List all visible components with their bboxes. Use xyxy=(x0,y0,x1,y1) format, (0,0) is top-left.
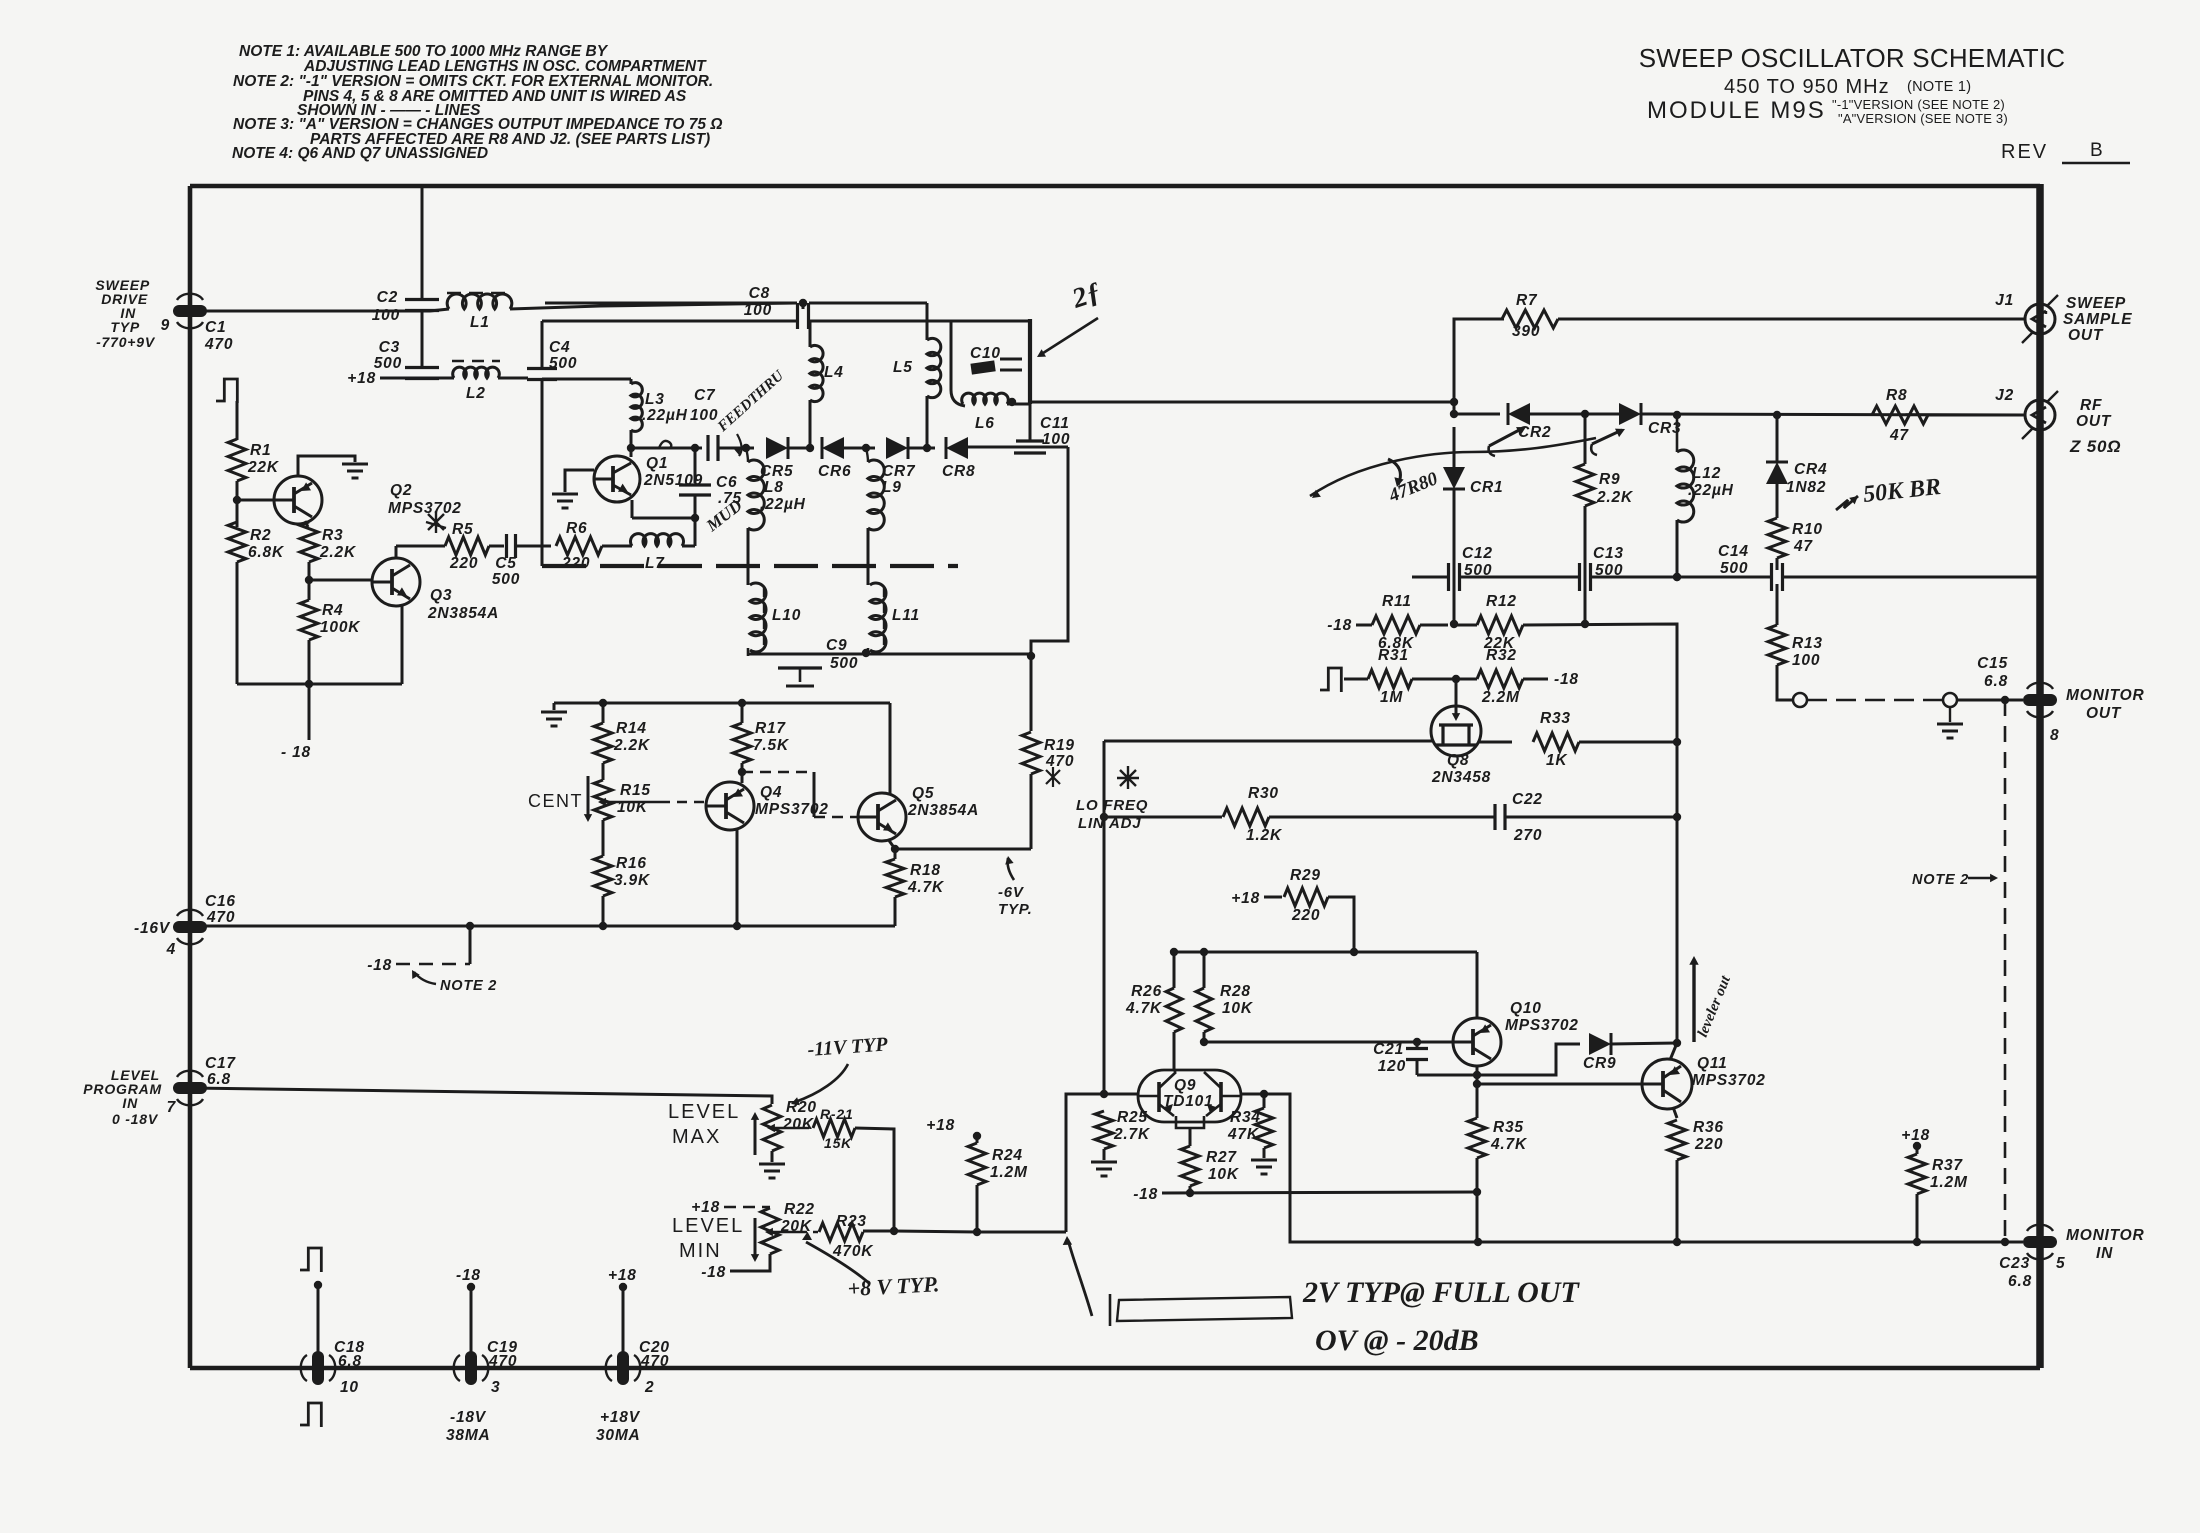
core dashes L10 xyxy=(763,588,765,648)
cent adjust arrow xyxy=(587,776,590,816)
svg-text:- 18: - 18 xyxy=(281,744,311,761)
dashed -18 wire at note2 xyxy=(396,963,470,966)
feedthrough capacitor C20 xyxy=(617,1351,629,1385)
wire L3 to Q1 base node xyxy=(630,430,633,452)
transistor Q4 xyxy=(706,782,754,830)
wire C11 corner down to C9 row xyxy=(1031,447,1068,656)
svg-text:OUT: OUT xyxy=(2086,705,2122,722)
svg-text:R26: R26 xyxy=(1131,983,1162,1000)
border right (thick) xyxy=(2036,184,2044,1368)
svg-text:L1: L1 xyxy=(470,314,490,331)
inductor L3 xyxy=(631,383,642,432)
connector circle A monitor out xyxy=(1793,693,1807,707)
wire note2 stub xyxy=(469,926,472,964)
svg-text:-18: -18 xyxy=(701,1264,726,1281)
svg-text:C9: C9 xyxy=(826,637,847,654)
wire C6 vertical xyxy=(694,448,697,483)
wire R1 to node Q2 base xyxy=(236,481,239,527)
svg-text:R-21: R-21 xyxy=(820,1106,854,1122)
wire R4 to bottom rail xyxy=(308,640,311,684)
wire R26 leads xyxy=(1173,952,1176,988)
svg-text:MPS3702: MPS3702 xyxy=(755,801,829,818)
svg-text:Q3: Q3 xyxy=(430,587,452,604)
wire R28 leads xyxy=(1203,952,1206,988)
svg-text:R19: R19 xyxy=(1044,737,1075,754)
svg-text:C22: C22 xyxy=(1512,791,1543,808)
svg-text:6.8K: 6.8K xyxy=(248,544,285,561)
fet Q8 xyxy=(1431,706,1481,756)
svg-text:MODULE M9S: MODULE M9S xyxy=(1647,97,1826,124)
svg-text:C4: C4 xyxy=(549,339,570,356)
capacitor C21 xyxy=(1406,1047,1428,1050)
svg-text:470: 470 xyxy=(1045,753,1074,770)
svg-text:L12: L12 xyxy=(1692,465,1721,482)
diode CR3 xyxy=(1619,403,1641,425)
wire +18 to R22 xyxy=(724,1206,770,1208)
wire +18 to R29 xyxy=(1264,896,1282,899)
wire R30 to C22 xyxy=(1269,816,1494,819)
svg-text:3.9K: 3.9K xyxy=(614,872,651,889)
wire R37 to monitor row xyxy=(1916,1194,1919,1242)
inductor L9 xyxy=(868,460,884,530)
svg-text:Q1: Q1 xyxy=(646,455,668,472)
wire Q10 base row xyxy=(1204,1041,1452,1044)
resistor R29 xyxy=(1284,888,1328,906)
wire R2 to bottom rail xyxy=(236,562,239,684)
svg-text:2.2K: 2.2K xyxy=(319,544,357,561)
wire Q8 drain to R33 xyxy=(1479,741,1512,744)
wire pulse to R1 xyxy=(236,401,239,440)
wire R14/R17 top rail xyxy=(553,703,556,710)
resistor R6 xyxy=(556,537,602,555)
wire Q9 emitters to R27 xyxy=(1176,1122,1204,1128)
svg-text:0 -18V: 0 -18V xyxy=(112,1111,159,1127)
inductor L4 xyxy=(810,345,823,401)
svg-text:+18: +18 xyxy=(347,370,376,387)
wire Q9 right lead to node xyxy=(1241,1093,1276,1096)
transistor Q5 xyxy=(858,793,906,841)
pulse above C18 xyxy=(300,1248,321,1272)
wire Q11 base row xyxy=(1477,1083,1642,1086)
wire Q4 emitter down xyxy=(736,829,739,926)
hop mark on base wire xyxy=(659,441,671,448)
wire L6 to node xyxy=(1007,403,1030,406)
svg-text:+18: +18 xyxy=(926,1117,955,1134)
feedthrough capacitor C18 xyxy=(312,1351,324,1385)
svg-text:R12: R12 xyxy=(1486,593,1517,610)
svg-text:R3: R3 xyxy=(322,527,343,544)
svg-text:2.2M: 2.2M xyxy=(1481,689,1520,706)
resistor R17 xyxy=(733,723,751,763)
wire monitor in row right xyxy=(1478,1241,2023,1244)
svg-text:9: 9 xyxy=(161,317,170,334)
wire Q8 gate xyxy=(1455,679,1458,716)
wire R15 wiper to Q4 base xyxy=(660,801,706,803)
potentiometer R20 xyxy=(763,1105,781,1151)
handwritten leveler out arrow xyxy=(1692,962,1695,1042)
ground at R14 rail xyxy=(541,711,567,714)
wire node to CR3 xyxy=(1585,413,1619,416)
inductor L10 xyxy=(750,583,766,652)
handwritten swoosh CR2-CR3 xyxy=(1310,438,1596,496)
resistor R19 xyxy=(1022,732,1040,774)
wire C10 thick vertical xyxy=(1028,319,1032,404)
level max arrow xyxy=(754,1117,757,1155)
wire circle B to C15 xyxy=(1957,699,2023,702)
svg-text:MPS3702: MPS3702 xyxy=(1505,1017,1579,1034)
arrow from 2f to C10 xyxy=(1040,318,1098,355)
svg-text:100: 100 xyxy=(1042,431,1070,448)
compartment top edge xyxy=(542,320,797,323)
svg-text:Q11: Q11 xyxy=(1697,1055,1728,1072)
wire -18 rail xyxy=(1162,1192,1477,1193)
capacitor C7 (series in base row) xyxy=(706,435,709,461)
svg-text:R16: R16 xyxy=(616,855,647,872)
svg-text:+18: +18 xyxy=(1231,890,1260,907)
svg-text:47K: 47K xyxy=(1227,1126,1260,1143)
wire CR4 top lead xyxy=(1776,415,1779,462)
wire R12 to corner xyxy=(1523,624,1677,1043)
svg-text:R30: R30 xyxy=(1248,785,1279,802)
svg-text:R36: R36 xyxy=(1693,1119,1724,1136)
connector circle B monitor out xyxy=(1943,693,1957,707)
capacitor C5 xyxy=(505,534,508,558)
wire CR9 corner xyxy=(1477,1044,1580,1075)
wire L5 chain xyxy=(926,303,929,340)
feedthrough capacitor C17 xyxy=(173,1082,207,1094)
diode CR5 xyxy=(766,437,788,459)
wire R5 to C5 xyxy=(396,545,445,548)
svg-text:SWEEP OSCILLATOR SCHEMATIC: SWEEP OSCILLATOR SCHEMATIC xyxy=(1639,43,2066,73)
svg-text:NOTE 2: NOTE 2 xyxy=(440,978,497,994)
ground at R20 xyxy=(759,1163,785,1166)
wire R32 to -18 xyxy=(1523,678,1548,681)
feedthrough capacitor C19 xyxy=(465,1351,477,1385)
svg-text:270: 270 xyxy=(1513,827,1542,844)
wire CR2 to node R9 xyxy=(1530,413,1585,416)
svg-text:-18: -18 xyxy=(1327,617,1352,634)
svg-text:CENT: CENT xyxy=(528,791,583,811)
svg-text:L10: L10 xyxy=(772,607,801,624)
node at C8 top xyxy=(799,299,807,307)
svg-text:7: 7 xyxy=(167,1099,177,1116)
wire pulse to R31 xyxy=(1344,678,1368,681)
svg-text:CR6: CR6 xyxy=(818,463,851,480)
wire R36 to monitor row xyxy=(1676,1160,1679,1242)
wire Q5 emitter row to R19 xyxy=(895,848,1031,851)
core dashes L11 xyxy=(883,588,885,648)
svg-text:J1: J1 xyxy=(1995,292,2014,309)
svg-text:R13: R13 xyxy=(1792,635,1823,652)
wire L5 bottom to diode row xyxy=(926,396,929,448)
svg-text:220: 220 xyxy=(561,555,590,572)
svg-text:TYP: TYP xyxy=(110,319,140,335)
wire Q11 emitter to R36 xyxy=(1673,1107,1677,1118)
svg-text:L6: L6 xyxy=(975,415,995,432)
handwritten arrow at CR3 xyxy=(1592,430,1622,444)
svg-text:L11: L11 xyxy=(892,607,920,624)
core dashes L2 xyxy=(452,360,500,362)
wire R14 to R15 xyxy=(602,703,605,723)
wire L7 to C6 node xyxy=(682,545,695,548)
compartment left edge upper xyxy=(541,321,544,367)
svg-text:390: 390 xyxy=(1512,323,1540,340)
wire R24 to node xyxy=(976,1185,979,1232)
resistor R13 xyxy=(1768,625,1786,665)
svg-text:C12: C12 xyxy=(1462,545,1493,562)
wire Q3 collector up xyxy=(395,546,398,559)
feedthrough capacitor C16 xyxy=(173,921,207,933)
resistor R12 xyxy=(1477,616,1523,634)
wire -18 to C19 xyxy=(470,1286,473,1360)
svg-text:2N3854A: 2N3854A xyxy=(907,802,979,819)
svg-text:4.7K: 4.7K xyxy=(1125,1000,1163,1017)
svg-text:C1: C1 xyxy=(205,319,226,336)
svg-text:-770+9V: -770+9V xyxy=(96,334,156,350)
capacitor C8 xyxy=(796,303,799,329)
svg-text:R15: R15 xyxy=(620,782,651,799)
svg-text:TYP.: TYP. xyxy=(998,901,1033,918)
svg-text:NOTE 2: NOTE 2 xyxy=(1912,872,1969,888)
svg-text:MIN: MIN xyxy=(679,1240,722,1262)
svg-text:C6: C6 xyxy=(716,474,737,491)
transistor Q11 xyxy=(1642,1059,1692,1109)
svg-text:38MA: 38MA xyxy=(446,1427,491,1444)
capacitor C22 xyxy=(1493,804,1496,830)
wire Q1 emitter row xyxy=(631,500,634,518)
svg-text:2V TYP@ FULL OUT: 2V TYP@ FULL OUT xyxy=(1302,1276,1580,1309)
wire R23 to node row xyxy=(863,1230,894,1233)
svg-text:4.7K: 4.7K xyxy=(907,879,945,896)
wire sweep drive row C1 to C8 xyxy=(190,309,449,311)
svg-text:1.2M: 1.2M xyxy=(1930,1174,1968,1191)
svg-text:2: 2 xyxy=(644,1379,654,1396)
wire base node to C6 node xyxy=(631,447,702,450)
wire main row C10 to R7 node xyxy=(1030,401,1454,404)
svg-text:220: 220 xyxy=(1694,1136,1723,1153)
capacitor C12 xyxy=(1447,563,1450,591)
dashed link Q4 collector to Q5 base xyxy=(742,771,814,774)
wire Q1 left lead to ground xyxy=(565,470,594,492)
wire R31 to node xyxy=(1412,678,1477,681)
svg-text:R27: R27 xyxy=(1206,1149,1237,1166)
svg-text:R32: R32 xyxy=(1486,647,1517,664)
svg-text:CR1: CR1 xyxy=(1470,479,1503,496)
resistor R37 xyxy=(1908,1154,1926,1194)
svg-text:R10: R10 xyxy=(1792,521,1823,538)
ground at monitor out circle xyxy=(1949,707,1951,722)
wire Q11 collector lead xyxy=(1670,1043,1677,1060)
svg-text:R33: R33 xyxy=(1540,710,1571,727)
svg-text:15K: 15K xyxy=(824,1135,852,1151)
wire C9 row xyxy=(748,653,1031,656)
svg-text:C23: C23 xyxy=(1999,1255,2030,1272)
feedthrough capacitor C1 xyxy=(173,305,207,317)
wire R19 to Q5 emitter row xyxy=(1030,774,1033,849)
svg-text:+18: +18 xyxy=(691,1199,720,1216)
resistor R30 xyxy=(1223,808,1269,826)
wire R8 to J2 xyxy=(1928,414,2025,417)
resistor R8 xyxy=(1872,406,1928,424)
svg-text:-6V: -6V xyxy=(998,884,1025,901)
wire R27 to -18 rail xyxy=(1189,1186,1192,1193)
diode CR1 (varactor) xyxy=(1443,467,1465,489)
svg-text:R6: R6 xyxy=(566,520,587,537)
compartment dashed bottom (-1 version line) xyxy=(542,564,958,568)
svg-text:CR7: CR7 xyxy=(882,463,916,480)
wire +18 to R37 xyxy=(1916,1144,1919,1154)
dashed vertical note2 line xyxy=(2004,700,2007,1242)
svg-text:LEVEL: LEVEL xyxy=(668,1101,740,1123)
svg-text:R9: R9 xyxy=(1599,471,1620,488)
wire CR9 to Q11 collector xyxy=(1611,1043,1677,1044)
svg-text:R5: R5 xyxy=(452,521,473,538)
svg-text:-16V: -16V xyxy=(134,920,171,937)
svg-text:C8: C8 xyxy=(749,285,770,302)
diode CR8 xyxy=(946,437,968,459)
svg-text:Q4: Q4 xyxy=(760,784,782,801)
wire C12 to C13 xyxy=(1460,576,1579,579)
border bottom xyxy=(190,1366,2040,1371)
svg-text:220: 220 xyxy=(1291,907,1320,924)
wire C7 to CR5 xyxy=(718,447,754,450)
resistor R5 xyxy=(445,537,489,555)
resistor R31 xyxy=(1368,670,1412,688)
svg-text:47: 47 xyxy=(1889,427,1909,444)
svg-text:+18V: +18V xyxy=(600,1409,641,1426)
svg-text:MAX: MAX xyxy=(672,1126,721,1148)
wire level program row xyxy=(190,1088,772,1104)
potentiometer R15 xyxy=(594,780,612,820)
svg-text:C15: C15 xyxy=(1977,655,2008,672)
svg-text:L2: L2 xyxy=(466,385,486,402)
svg-text:L8: L8 xyxy=(764,479,784,496)
inductor L8 xyxy=(748,460,764,530)
svg-text:.22µH: .22µH xyxy=(642,407,688,424)
wire top inner rail to L5 xyxy=(545,302,797,305)
compartment left edge lower xyxy=(541,380,544,566)
svg-text:100: 100 xyxy=(690,407,718,424)
svg-text:.22µH: .22µH xyxy=(760,496,806,513)
resistor R26 xyxy=(1166,988,1182,1032)
wire Q2/Q3 bottom rail xyxy=(237,683,402,686)
ground at Q1 xyxy=(552,493,578,496)
svg-text:470: 470 xyxy=(204,336,233,353)
wire Q9 node down to monitor row xyxy=(1276,1094,1478,1242)
svg-text:+18: +18 xyxy=(1901,1127,1930,1144)
wire CR7 to CR8 xyxy=(908,447,935,450)
resistor R28 xyxy=(1196,988,1212,1032)
svg-text:Q10: Q10 xyxy=(1510,1000,1542,1017)
wire R34 leads xyxy=(1263,1094,1266,1108)
resistor R4 xyxy=(300,600,318,640)
wire Q10 emitter chain xyxy=(1476,1066,1479,1118)
handwritten hook to CR1 xyxy=(1388,459,1400,485)
wire emitter rail C16 xyxy=(190,925,895,928)
svg-text:450 TO 950 MHz: 450 TO 950 MHz xyxy=(1724,76,1890,98)
resistor R16 xyxy=(594,856,612,896)
svg-text:100K: 100K xyxy=(320,619,361,636)
wire R12 node xyxy=(1454,624,1477,627)
diode CR6 xyxy=(822,437,844,459)
svg-text:10K: 10K xyxy=(1208,1166,1240,1183)
svg-text:R22: R22 xyxy=(784,1201,815,1218)
wire Q3 emitter down xyxy=(401,605,404,684)
svg-text:CR2: CR2 xyxy=(1518,424,1551,441)
wire R17 to node xyxy=(741,703,744,723)
inductor L2 xyxy=(453,367,500,378)
handwritten arrow to level node xyxy=(1068,1240,1092,1316)
wire R22 bottom to -18 xyxy=(730,1254,770,1271)
resistor R1 xyxy=(228,439,246,481)
inductor L12 xyxy=(1677,450,1694,522)
capacitor C13 xyxy=(1578,563,1581,591)
svg-text:L3: L3 xyxy=(645,391,665,408)
wire Q2 collector to ground xyxy=(298,456,355,477)
asterisk near R19 xyxy=(1046,767,1060,787)
svg-text:1.2M: 1.2M xyxy=(990,1164,1028,1181)
wire L12 bottom to row xyxy=(1676,520,1679,577)
svg-text:OUT: OUT xyxy=(2068,327,2104,344)
svg-text:2.7K: 2.7K xyxy=(1113,1126,1151,1143)
dashed wire monitor out xyxy=(1807,699,1943,702)
wire pulse to C18 xyxy=(317,1284,320,1360)
svg-text:100: 100 xyxy=(744,302,772,319)
trimmer C10 blob xyxy=(970,360,995,374)
svg-text:C2: C2 xyxy=(377,289,398,306)
Q9 right device xyxy=(1219,1082,1223,1112)
svg-text:-18V: -18V xyxy=(450,1409,487,1426)
resistor R23 xyxy=(819,1223,863,1241)
wire Q10 collector xyxy=(1476,952,1479,1018)
level min arrow xyxy=(754,1218,757,1256)
svg-text:R1: R1 xyxy=(250,442,271,459)
wire C21 stubs xyxy=(1416,1042,1419,1049)
svg-text:C13: C13 xyxy=(1593,545,1624,562)
svg-text:500: 500 xyxy=(549,355,577,372)
diode CR9 xyxy=(1589,1033,1611,1055)
resistor R10 xyxy=(1768,518,1786,558)
inductor L7 xyxy=(631,534,684,546)
svg-text:-18: -18 xyxy=(1133,1186,1158,1203)
wire CR8 to C11 corner xyxy=(968,446,1068,449)
wire C9 row node down to R19 xyxy=(1030,656,1033,731)
wire R21 to corner xyxy=(855,1128,894,1231)
svg-text:R17: R17 xyxy=(755,720,786,737)
svg-text:6.8: 6.8 xyxy=(338,1353,362,1370)
svg-text:C21: C21 xyxy=(1373,1041,1404,1058)
svg-text:2.2K: 2.2K xyxy=(613,737,651,754)
svg-text:OUT: OUT xyxy=(2076,413,2112,430)
svg-text:6.8: 6.8 xyxy=(207,1071,231,1088)
wire R16 to emitter rail xyxy=(602,896,605,926)
svg-text:J2: J2 xyxy=(1995,387,2014,404)
svg-text:20K: 20K xyxy=(780,1218,813,1235)
svg-text:C16: C16 xyxy=(205,893,236,910)
border top xyxy=(190,184,2040,189)
svg-text:MONITOR: MONITOR xyxy=(2066,1227,2145,1244)
wire L4 top to compartment top xyxy=(809,321,812,347)
resistor R27 xyxy=(1181,1146,1199,1186)
ground at R34 xyxy=(1251,1159,1277,1162)
ground at R25 xyxy=(1091,1161,1117,1164)
svg-text:C14: C14 xyxy=(1718,543,1749,560)
feedthrough capacitor C15 xyxy=(2023,694,2057,706)
wire C13 to C14 xyxy=(1591,576,1771,579)
svg-text:LO FREQ: LO FREQ xyxy=(1076,797,1148,814)
svg-text:100: 100 xyxy=(1792,652,1820,669)
svg-text:MPS3702: MPS3702 xyxy=(1692,1072,1766,1089)
